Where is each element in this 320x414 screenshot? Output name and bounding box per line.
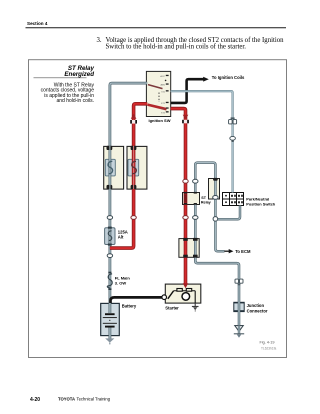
wire battery bottom to ground (gray) [109, 327, 112, 339]
battery body [101, 303, 120, 335]
fusible link right terminal caps [131, 146, 137, 189]
wire battery feed to ignition switch AM1 (gray) [110, 83, 147, 313]
svg-text:3.: 3. [97, 37, 102, 44]
flow arrow up on AM2 red wire [131, 114, 137, 119]
svg-text:FL Main: FL Main [115, 275, 131, 280]
svg-text:Relay: Relay [201, 201, 212, 205]
wire junction node to ECM (gray) [215, 221, 224, 251]
junction node circle [213, 217, 218, 222]
svg-text:Ignition SW: Ignition SW [149, 118, 171, 123]
wire IG1 to park/neutral switch (thin blue) [171, 91, 233, 192]
wire ST relay down to junction connector and ground (gray) [195, 205, 239, 326]
battery ground symbol [105, 338, 114, 342]
fusible link box left [104, 146, 124, 189]
wire IG2 to ignition coils (black) [171, 79, 204, 103]
oval connector on red wire above ST relay [183, 179, 188, 183]
oval connector on gray wire above ST relay [193, 179, 198, 183]
svg-text:Junction: Junction [247, 303, 265, 308]
svg-text:Alt: Alt [118, 235, 124, 240]
oval connector on gray wire below ST relay [193, 216, 198, 220]
svg-text:ST: ST [201, 196, 206, 200]
starter ground symbol [192, 303, 199, 312]
fusible link left terminal caps [107, 146, 113, 189]
svg-text:AM1: AM1 [161, 84, 166, 87]
header rule [26, 27, 287, 29]
fusible link box right [127, 146, 147, 189]
fuse 125A Alt body [105, 228, 115, 245]
connector block below ST relay [179, 239, 199, 258]
pass-box terminal caps [213, 178, 218, 199]
oval connector on gray wire below fuse [107, 254, 112, 258]
S symbol in 125A fuse [108, 231, 111, 241]
svg-text:To Ignition Coils: To Ignition Coils [212, 75, 245, 80]
wire battery positive to starter terminal (black) [111, 297, 163, 303]
svg-text:4-20: 4-20 [30, 397, 40, 403]
svg-text:and hold-in coils.: and hold-in coils. [56, 98, 94, 104]
svg-text:Position Switch: Position Switch [246, 202, 276, 207]
wire park/neutral switch to junction node (gray) [218, 206, 240, 220]
starter motor contact circle [182, 293, 190, 301]
S symbol in left fusible link [108, 161, 113, 174]
figure frame [29, 60, 287, 358]
svg-text:To ECM: To ECM [235, 249, 251, 254]
inline connector on ST2 red wire [182, 120, 189, 124]
connector block terminal caps [183, 238, 197, 258]
pass-through connector box above junction node [209, 179, 220, 200]
ST relay box U-ST [183, 193, 200, 205]
svg-text:Battery: Battery [122, 303, 137, 308]
inline connector on AM2 red wire [130, 120, 137, 124]
arrowhead to ignition coils [203, 77, 209, 82]
svg-text:Starter: Starter [165, 306, 179, 311]
oval connector at pass-box bottom [213, 196, 218, 200]
park/neutral position switch connector grid [223, 193, 244, 206]
wire ST2 to starter (red) [171, 109, 186, 284]
svg-text:Section 4: Section 4 [27, 21, 48, 26]
starter pull-in coil [177, 289, 182, 292]
flow arrow down into starter on red wire [183, 283, 189, 288]
svg-text:Park/Neutral: Park/Neutral [246, 196, 269, 201]
arrow to ECM [224, 250, 229, 252]
svg-text:ACC: ACC [160, 75, 165, 78]
junction connector body [234, 302, 244, 312]
ignition switch internals [148, 75, 169, 115]
svg-text:Switch to the hold-in and pull: Switch to the hold-in and pull-in coils … [106, 43, 247, 50]
ST relay coil mark [184, 194, 187, 202]
double-box connector on IG1 line [229, 117, 237, 124]
battery plates [103, 314, 117, 326]
oval connector on IG1 line [230, 136, 236, 142]
125A fuse terminal ticks [108, 227, 112, 246]
svg-text:Fig. 4-19: Fig. 4-19 [260, 340, 275, 344]
sidebar rule [34, 77, 87, 79]
svg-text:TL623h1fa: TL623h1fa [261, 346, 276, 350]
ST relay terminals [184, 192, 197, 205]
svg-text:Technical Training: Technical Training [77, 397, 111, 402]
fusible link FL Main symbol [107, 272, 112, 290]
flow arrow down on ST2 red wire [183, 115, 189, 120]
starter internal wire to ground [194, 291, 196, 303]
svg-text:3. OW: 3. OW [115, 281, 127, 286]
wire ST relay contact up and over to pass-box (gray) [195, 163, 215, 217]
wire ignition switch AM2 feed (red) [110, 104, 147, 248]
ignition switch body [146, 71, 170, 116]
starter coil bar [174, 290, 196, 292]
oval connector on red wire below ST relay [183, 216, 188, 220]
double-box connector on wire to junction connector [235, 279, 243, 285]
svg-text:Energized: Energized [64, 71, 94, 78]
S symbol in right fusible link [132, 161, 137, 174]
junction connector ground symbol [234, 326, 244, 338]
starter contact arm [168, 291, 174, 299]
oval connector on red wire above bend [131, 216, 136, 220]
oval connector on gray wire above fuse [107, 216, 112, 220]
svg-text:Connector: Connector [247, 309, 268, 314]
svg-text:TOYOTA: TOYOTA [58, 397, 75, 402]
starter hold-in coil [186, 289, 191, 292]
starter body [165, 284, 201, 303]
starter terminal circle [162, 295, 167, 300]
